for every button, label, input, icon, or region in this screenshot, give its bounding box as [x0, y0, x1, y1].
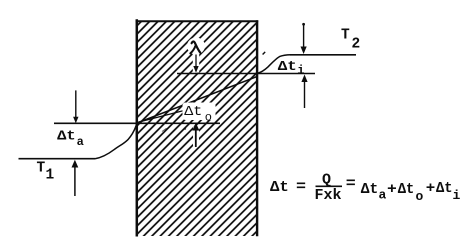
svg-text:Δt: Δt [270, 179, 289, 196]
stray tick right of wall [263, 52, 266, 55]
wall right border [256, 20, 258, 236]
svg-text:T: T [341, 28, 350, 44]
T1 temperature line [19, 158, 96, 160]
stray dash mark [162, 128, 167, 131]
label delta-t-a [57, 130, 84, 149]
svg-text:Δt: Δt [398, 181, 415, 198]
svg-text:=: = [296, 179, 306, 196]
wall top border [136, 20, 259, 22]
label T1 [37, 160, 55, 183]
white halo behind delta-t-o and its arrow [183, 103, 216, 148]
svg-text:Δt: Δt [436, 180, 453, 197]
svg-text:1: 1 [46, 168, 55, 184]
down arrow from lambda [193, 55, 198, 73]
up arrow below delta-t-o [192, 123, 199, 147]
label lambda [190, 42, 200, 54]
svg-text:o: o [205, 110, 212, 124]
svg-text:Fxk: Fxk [315, 187, 342, 204]
svg-text:=: = [346, 176, 356, 193]
svg-text:+: + [387, 181, 397, 198]
surface temp level line (left, through wall) [54, 122, 220, 124]
svg-text:a: a [379, 188, 387, 203]
right boundary-layer curve [257, 55, 291, 74]
white halo behind lambda and its arrow [187, 38, 205, 73]
label T2 [341, 28, 360, 53]
svg-text:o: o [416, 189, 424, 204]
svg-text:+: + [426, 180, 436, 197]
label delta-t-i [278, 60, 305, 78]
svg-text:Δt: Δt [278, 60, 297, 75]
svg-text:a: a [77, 135, 84, 149]
T2 temperature line [290, 54, 356, 56]
svg-text:Δt: Δt [184, 105, 202, 120]
left boundary-layer curve [95, 124, 137, 159]
label delta-t-o [184, 105, 212, 124]
up arrow below inner surface line [301, 75, 307, 109]
down arrow above delta-t-a [73, 90, 78, 123]
leader line from delta-t-o to junction [137, 110, 186, 123]
svg-text:i: i [453, 188, 461, 203]
inner surface temp level line (through right wall edge) [177, 73, 315, 75]
svg-text:Δt: Δt [361, 181, 379, 198]
up arrow below T1 line [72, 160, 79, 196]
svg-text:T: T [37, 160, 46, 176]
stray dot [184, 128, 186, 130]
equation fraction bar [316, 185, 343, 187]
svg-text:i: i [297, 64, 304, 78]
wall temperature gradient diagonal [137, 77, 257, 124]
svg-text:Δt: Δt [57, 130, 75, 145]
svg-text:2: 2 [352, 37, 361, 53]
wall hatched body [138, 22, 257, 236]
down arrow above T2 line [301, 23, 307, 54]
wall left border [136, 19, 139, 236]
